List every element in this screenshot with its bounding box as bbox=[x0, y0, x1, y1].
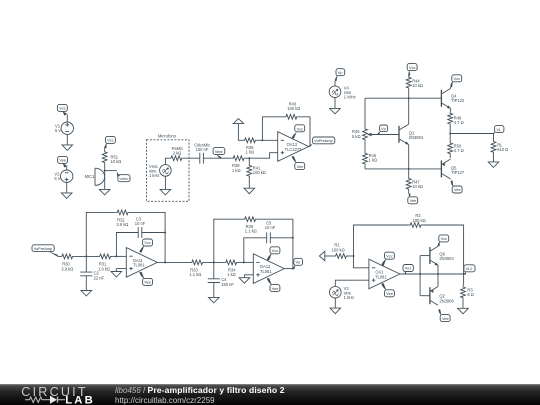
wire R47 top bbox=[408, 169, 410, 177]
svg-text:5 kΩ: 5 kΩ bbox=[352, 134, 361, 139]
wire RL bottom bbox=[493, 154, 495, 159]
junction VL2 bbox=[463, 273, 465, 275]
svg-text:TL081: TL081 bbox=[133, 263, 145, 268]
node Vmic (label) bbox=[117, 171, 130, 182]
resistor R3 bbox=[461, 286, 474, 300]
wire V2 top bbox=[66, 166, 68, 170]
transistor Q4 bbox=[441, 88, 465, 108]
wire R51 bottom to mic node bbox=[104, 164, 106, 186]
ground (RL) bbox=[488, 159, 499, 167]
svg-text:Vcc: Vcc bbox=[386, 253, 393, 258]
node Vo (label) bbox=[293, 258, 303, 269]
wire Q4 emitter to R49 bbox=[450, 109, 452, 112]
svg-text:Vp: Vp bbox=[381, 126, 386, 131]
capacitor C4 bbox=[208, 277, 235, 287]
wire V3 bottom bbox=[334, 298, 336, 305]
resistor R32 bbox=[116, 210, 130, 227]
junction R34/C5 bbox=[243, 261, 245, 263]
source V3 (sine) bbox=[330, 286, 355, 300]
junction R30/C2/feedback bbox=[85, 255, 87, 257]
wire OA11 output bbox=[157, 261, 190, 263]
node Vcc (OA12) bbox=[267, 247, 280, 260]
junction R33/C4/feedback2 bbox=[213, 261, 215, 263]
junction C3 rail bbox=[164, 232, 166, 234]
svg-text:100 kΩ: 100 kΩ bbox=[413, 218, 426, 223]
node Vee (Q5) bbox=[451, 180, 462, 193]
resistor R47 bbox=[406, 177, 423, 191]
potentiometer R45 bbox=[352, 128, 372, 142]
wire C4 top bbox=[213, 262, 215, 278]
source V4 (sine) bbox=[329, 85, 355, 99]
resistor R33 bbox=[189, 260, 204, 277]
wire Vmic source bottom bbox=[164, 176, 166, 186]
resistor R40 bbox=[285, 102, 301, 120]
svg-text:2N3904: 2N3904 bbox=[409, 135, 424, 140]
junction C5 rail bbox=[292, 237, 294, 239]
svg-text:4.7 Ω: 4.7 Ω bbox=[454, 148, 464, 153]
svg-text:Vcc: Vcc bbox=[441, 236, 448, 241]
svg-text:Vee: Vee bbox=[59, 158, 66, 163]
svg-text:VoPreAmp: VoPreAmp bbox=[314, 138, 333, 143]
wire Q6 emitter to node bbox=[437, 265, 439, 274]
wire R51 top bbox=[104, 147, 106, 151]
svg-text:MIC1: MIC1 bbox=[85, 174, 96, 179]
svg-text:1 kΩ: 1 kΩ bbox=[369, 158, 378, 163]
ground (V1) bbox=[62, 142, 73, 150]
node Vp (pot wiper) bbox=[377, 125, 388, 135]
svg-text:1.1 kΩ: 1.1 kΩ bbox=[245, 229, 257, 234]
wire top bus bbox=[365, 97, 441, 99]
svg-text:Vcc: Vcc bbox=[454, 76, 461, 81]
wire plus input to V3 bbox=[335, 280, 369, 286]
wire C5 to output rail bbox=[270, 237, 293, 239]
op-amp OA13 bbox=[278, 132, 309, 162]
svg-text:Vee: Vee bbox=[454, 187, 461, 192]
resistor R34 bbox=[224, 260, 238, 277]
wire OA12 output bbox=[284, 268, 293, 270]
wire R2 to VL2 rail bbox=[423, 225, 464, 274]
junction output node bbox=[449, 133, 451, 135]
resistor R49 bbox=[448, 112, 464, 126]
wire base rail bbox=[419, 256, 421, 296]
wire terminal to R1 bbox=[325, 255, 334, 257]
wire R46 bottom to bus bbox=[364, 166, 366, 169]
wire R41 top bbox=[248, 158, 250, 164]
wire C5 branch up bbox=[244, 238, 267, 263]
svg-text:100 kΩ: 100 kΩ bbox=[287, 106, 300, 111]
svg-text:5 V: 5 V bbox=[55, 128, 61, 133]
dashed box Microfono bbox=[147, 140, 190, 202]
junction R44/Q1 collector bbox=[408, 97, 410, 99]
junction R47/Q1 emitter bbox=[408, 168, 410, 170]
ground (R3) bbox=[458, 305, 469, 313]
ground (C2) bbox=[81, 288, 92, 296]
wire R39 to plus input bbox=[246, 153, 278, 159]
svg-text:Microfono: Microfono bbox=[158, 133, 177, 138]
svg-text:8 Ω: 8 Ω bbox=[467, 292, 473, 297]
wire output node to RL bbox=[450, 134, 493, 141]
svg-text:Vee: Vee bbox=[297, 164, 304, 169]
wire R1 to junction bbox=[348, 255, 353, 257]
junction R1/R2/inv bbox=[353, 255, 355, 257]
wire R34 to inverting input bbox=[238, 261, 253, 263]
svg-text:Vee: Vee bbox=[272, 286, 279, 291]
resistor R38 bbox=[243, 138, 257, 155]
wire V1 bottom bbox=[66, 134, 68, 142]
node Vcc (Q4) bbox=[450, 75, 461, 88]
svg-text:Vcc: Vcc bbox=[272, 248, 279, 253]
wire V4 bottom bbox=[334, 98, 336, 106]
capacitor CdesMic bbox=[194, 143, 210, 164]
transistor Q6 bbox=[430, 246, 455, 265]
wire C2 top bbox=[85, 256, 87, 272]
wire R3 bottom bbox=[462, 300, 464, 306]
node VL (label) bbox=[493, 126, 504, 135]
wire Q2 base bbox=[420, 295, 429, 297]
resistor R36 bbox=[243, 217, 257, 234]
wire wiper to Q1 base bbox=[372, 134, 399, 136]
svg-text:Vee: Vee bbox=[386, 291, 393, 296]
svg-text:TL081: TL081 bbox=[375, 274, 387, 279]
svg-text:100 kΩ: 100 kΩ bbox=[253, 170, 266, 175]
svg-text:1.1 kΩ: 1.1 kΩ bbox=[189, 272, 201, 277]
resistor R51 bbox=[102, 150, 121, 164]
wire Q6 collector bbox=[437, 245, 439, 246]
voltage source V2 bbox=[54, 170, 72, 182]
svg-text:TLC2272: TLC2272 bbox=[285, 147, 303, 152]
svg-text:Vmic: Vmic bbox=[119, 176, 128, 181]
svg-text:100 kΩ: 100 kΩ bbox=[332, 247, 345, 252]
wire V1 top bbox=[66, 115, 68, 123]
wire input to R30 bbox=[57, 255, 60, 257]
wire feedback up bbox=[262, 117, 284, 141]
svg-text:Vee: Vee bbox=[410, 198, 417, 203]
resistor RL bbox=[491, 140, 508, 154]
resistor R46 bbox=[363, 152, 378, 166]
svg-text:1.9 kΩ: 1.9 kΩ bbox=[98, 266, 110, 271]
wire to inverting input bbox=[354, 256, 369, 268]
svg-text:1 kΩ: 1 kΩ bbox=[227, 272, 236, 277]
wire R31 to inverting input bbox=[112, 255, 126, 257]
svg-text:2 kΩ: 2 kΩ bbox=[173, 150, 182, 155]
node Vent (label) bbox=[213, 148, 225, 159]
transistor Q5 bbox=[441, 159, 465, 179]
node Vee (R47) bbox=[408, 191, 418, 204]
node Vp (label at V4) bbox=[335, 69, 345, 81]
wire R32 to output rail bbox=[130, 212, 165, 262]
svg-text:22 nF: 22 nF bbox=[94, 275, 105, 280]
svg-text:10 kΩ: 10 kΩ bbox=[412, 184, 423, 189]
node Vee (OA1) bbox=[381, 283, 394, 296]
svg-text:3.9 kΩ: 3.9 kΩ bbox=[116, 222, 128, 227]
node arrow (up terminal at R38) bbox=[233, 119, 243, 141]
op-amp OA12 bbox=[253, 254, 284, 284]
svg-text:2N3906: 2N3906 bbox=[439, 298, 454, 303]
transistor Q2 bbox=[430, 287, 455, 306]
wire feedback R32 up bbox=[86, 212, 116, 256]
node terminal (input arrow) bbox=[319, 251, 324, 260]
svg-text:Vo1: Vo1 bbox=[405, 266, 412, 271]
wire R38 to inverting input bbox=[257, 139, 278, 141]
node Vcc (OA11) bbox=[139, 239, 152, 253]
capacitor C2 bbox=[80, 271, 104, 281]
svg-text:Vee: Vee bbox=[442, 316, 449, 321]
wire C2 bottom bbox=[85, 276, 87, 288]
resistor R2 bbox=[409, 213, 426, 227]
wire R44 bottom to bus bbox=[408, 90, 410, 98]
wire VL2 to R3 bbox=[463, 274, 465, 286]
wire R50 to Q5 emitter bbox=[449, 156, 451, 158]
ground (C4) bbox=[209, 295, 220, 303]
node VoPreAmp (filter input) bbox=[32, 245, 58, 257]
ground (OA12 plus) bbox=[239, 275, 250, 283]
svg-text:10 nF: 10 nF bbox=[265, 225, 276, 230]
wire RsMic to CdesMic bbox=[184, 157, 200, 159]
op-amp OA11 bbox=[126, 248, 157, 278]
svg-text:1 kHz: 1 kHz bbox=[149, 173, 159, 178]
wire mic node to Vmic bbox=[105, 170, 117, 172]
node Vee (Q2) bbox=[438, 309, 450, 321]
resistor RsMic bbox=[170, 146, 184, 161]
svg-text:1 kΩ: 1 kΩ bbox=[246, 150, 255, 155]
resistor R50 bbox=[448, 142, 464, 156]
wire OA12 plus input to ground bbox=[244, 274, 253, 276]
junction mic node bbox=[104, 170, 106, 172]
ground (V4) bbox=[330, 106, 341, 114]
svg-text:610 Ω: 610 Ω bbox=[497, 147, 508, 152]
wire Vmic source top bbox=[165, 158, 169, 164]
svg-text:Vcc: Vcc bbox=[144, 240, 151, 245]
svg-text:100 nF: 100 nF bbox=[196, 147, 209, 152]
resistor R1 bbox=[332, 243, 349, 259]
svg-text:1 kΩ: 1 kΩ bbox=[232, 168, 241, 173]
wire R44 top bbox=[408, 74, 410, 76]
svg-text:Vent: Vent bbox=[215, 149, 224, 154]
wire pot to R46 bbox=[364, 142, 366, 152]
transistor Q1 bbox=[399, 124, 424, 144]
wire C3 to output rail bbox=[142, 232, 165, 234]
wire Q2 emitter to node bbox=[437, 274, 439, 287]
junction R38/feedback bbox=[261, 139, 263, 141]
junction R39/R41 bbox=[248, 157, 250, 159]
wire V4 top bbox=[334, 81, 336, 86]
node Vcc (label at V1) bbox=[57, 104, 67, 115]
svg-text:Vcc: Vcc bbox=[409, 65, 416, 70]
capacitor C3 bbox=[135, 216, 146, 238]
junction emitters bbox=[437, 273, 439, 275]
capacitor C5 bbox=[265, 220, 276, 243]
svg-text:Vcc: Vcc bbox=[59, 106, 66, 111]
wire Q1 emitter bbox=[408, 145, 410, 169]
node Vee (OA11) bbox=[139, 272, 152, 286]
ground (V3) bbox=[330, 305, 341, 313]
svg-text:10 kΩ: 10 kΩ bbox=[412, 83, 423, 88]
node Vee (OA12) bbox=[267, 278, 280, 292]
node Vcc (R44) bbox=[407, 64, 417, 76]
svg-text:Vee: Vee bbox=[144, 280, 151, 285]
ground (Vmic source) bbox=[160, 187, 171, 195]
ground (MIC1) bbox=[99, 187, 110, 195]
wire feedback R2 bbox=[354, 225, 409, 256]
svg-text:TIP127: TIP127 bbox=[451, 170, 465, 175]
wire left rail to pot bbox=[364, 98, 366, 127]
svg-text:VL2: VL2 bbox=[466, 266, 473, 271]
wire CdesMic to R39 bbox=[203, 157, 231, 159]
wire C3 branch up bbox=[116, 233, 138, 257]
node VoPreAmp (OA13 output) bbox=[309, 137, 335, 147]
node Vcc (OA1) bbox=[381, 252, 394, 265]
svg-text:2N3904: 2N3904 bbox=[439, 256, 454, 261]
node VL2 (label) bbox=[464, 265, 475, 275]
node Vee (label at V2) bbox=[58, 156, 68, 167]
wire R30 to R31 bbox=[74, 255, 98, 257]
wire Q6 base bbox=[420, 255, 429, 257]
svg-text:3.9 kΩ: 3.9 kΩ bbox=[61, 266, 73, 271]
svg-text:VoPreAmp: VoPreAmp bbox=[34, 246, 53, 251]
junction R31/C3 bbox=[115, 255, 117, 257]
wire OA11 plus input to ground bbox=[116, 268, 126, 270]
wire R40 to output bbox=[299, 117, 310, 147]
ground (V2) bbox=[61, 190, 72, 198]
node Vo1 (label) bbox=[403, 265, 413, 274]
svg-text:10 nF: 10 nF bbox=[135, 221, 146, 226]
resistor R44 bbox=[406, 76, 423, 90]
resistor R31 bbox=[98, 254, 112, 271]
node Vcc (Q6) bbox=[438, 235, 449, 246]
wire feedback R36 up bbox=[214, 219, 244, 262]
op-amp OA1 bbox=[369, 259, 400, 289]
microphone MIC1 bbox=[85, 168, 105, 185]
wire C4 bottom bbox=[213, 283, 215, 295]
ground (R41) bbox=[244, 185, 255, 193]
resistor R41 bbox=[247, 164, 266, 178]
wire R33 to R34 bbox=[204, 261, 224, 263]
node Vee (OA13) bbox=[292, 156, 305, 170]
svg-text:1 kHz: 1 kHz bbox=[344, 295, 354, 300]
wire OA1 output bbox=[400, 273, 438, 275]
node Vcc (label at R51) bbox=[105, 136, 116, 148]
wire bottom bus bbox=[365, 168, 441, 170]
junction Vo bbox=[292, 268, 294, 270]
voltage source V1 bbox=[55, 122, 74, 134]
junction output/base rail bbox=[419, 273, 421, 275]
wire Q1 collector bbox=[408, 98, 410, 124]
svg-text:4.7 Ω: 4.7 Ω bbox=[454, 120, 464, 125]
ground (OA11 plus) bbox=[111, 269, 122, 277]
svg-text:Vcc: Vcc bbox=[297, 127, 304, 132]
wire emitters to VL2 node bbox=[438, 273, 464, 275]
svg-text:TIP122: TIP122 bbox=[451, 98, 465, 103]
junction output rail bbox=[164, 261, 166, 263]
svg-text:Vcc: Vcc bbox=[107, 138, 114, 143]
node Vcc (OA13) bbox=[292, 125, 305, 139]
wire R49 to output node bbox=[449, 126, 451, 142]
svg-text:Vo: Vo bbox=[296, 260, 301, 265]
svg-text:10 kΩ: 10 kΩ bbox=[111, 159, 122, 164]
wire V2 bottom bbox=[66, 182, 68, 190]
wire R41 bottom bbox=[248, 178, 250, 185]
resistor R39 bbox=[232, 156, 246, 173]
wire Q4 collector bbox=[450, 87, 452, 89]
svg-text:1 MHz: 1 MHz bbox=[344, 95, 356, 100]
svg-text:TL081: TL081 bbox=[260, 269, 272, 274]
svg-text:VL: VL bbox=[496, 127, 502, 132]
svg-text:5 V: 5 V bbox=[54, 176, 60, 181]
svg-text:Vp: Vp bbox=[338, 70, 343, 75]
svg-text:LAB: LAB bbox=[65, 395, 95, 405]
resistor R30 bbox=[60, 254, 74, 271]
svg-text:150 nF: 150 nF bbox=[221, 282, 234, 287]
wire R36 to output rail bbox=[257, 219, 293, 268]
source Vmic (sine) bbox=[149, 164, 171, 178]
